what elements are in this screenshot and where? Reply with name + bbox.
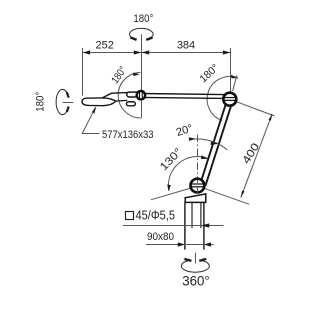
axis line above 360 symbol — [195, 253, 197, 264]
arrow of 20deg arc at centerline — [189, 137, 196, 141]
arc 180deg around elbow joint — [118, 72, 141, 118]
svg-text:90x80: 90x80 — [147, 231, 174, 243]
svg-text:384: 384 — [177, 40, 195, 52]
arrow of 130deg arc at radial line — [167, 185, 171, 192]
post outer left — [184, 202, 186, 249]
arrow at top of elbow arc — [133, 73, 140, 77]
extension line from lower joint for 400 — [204, 188, 249, 204]
arrow mid pointing left — [142, 50, 149, 54]
elbow joint slot — [139, 92, 141, 99]
horizontal arm bottom edge — [142, 97, 224, 98]
knob below head bracket — [127, 102, 136, 106]
tick left — [82, 48, 84, 57]
svg-text:180°: 180° — [35, 92, 47, 112]
lower joint slot — [190, 183, 204, 185]
arrow at right end pointing right — [223, 50, 230, 54]
clamp bracket below lower joint — [185, 194, 206, 202]
elbow joint — [137, 91, 145, 99]
arrow of 20deg arc at arm — [211, 141, 218, 145]
centerline (dash-dot) through lower joint — [197, 135, 199, 192]
head bracket top line — [102, 93, 128, 98]
dimension line 400 — [241, 114, 272, 198]
post outer right — [203, 202, 205, 249]
centerline segment inside lower joint — [197, 180, 199, 184]
arrow 400 top — [269, 114, 273, 121]
head hinge capsule — [127, 92, 142, 97]
dimension line 90x80 — [146, 244, 214, 246]
lower joint — [191, 179, 205, 193]
upper joint slot — [223, 97, 236, 99]
axis line from top rotation symbol down to elbow joint — [141, 34, 143, 91]
arc 180deg around upper joint — [207, 76, 238, 120]
dimension line 252/384 — [83, 52, 232, 54]
tick right — [230, 48, 232, 57]
svg-text:577x136x33: 577x136x33 — [102, 129, 154, 141]
post inner right — [200, 202, 202, 228]
rotation symbol top: arrow tips — [130, 37, 136, 40]
lamp head body — [82, 98, 116, 106]
leader line for square45/phi5,5 — [123, 225, 224, 227]
leader line for 577x136x33 — [82, 107, 99, 133]
head bracket bottom line — [116, 99, 127, 102]
arrow at end of upper arc — [231, 75, 239, 79]
upper joint — [223, 93, 236, 106]
arrow of 130deg arc at arm — [201, 155, 208, 159]
arc 20deg — [194, 139, 227, 150]
rotation symbol bottom: arrow tips — [184, 259, 191, 261]
arc 130deg — [168, 157, 207, 191]
radial reference line for 130deg — [151, 188, 191, 200]
tick middle — [141, 48, 143, 57]
rotation symbol top: ellipse arrow — [130, 28, 154, 39]
post inner left — [191, 202, 193, 228]
radial tick below elbow joint — [141, 101, 143, 118]
arrow 90x80 left pointing right — [178, 242, 185, 246]
rotation symbol left: ellipse arrow — [56, 89, 68, 114]
svg-text:180°: 180° — [133, 13, 153, 25]
rotation symbol bottom: ellipse arrow — [181, 260, 209, 272]
svg-text:252: 252 — [96, 40, 114, 52]
rotation symbol left: arrow tips — [67, 92, 69, 98]
horizontal arm top edge — [142, 94, 225, 95]
extension line from upper joint for 400 — [236, 102, 274, 116]
arrow 400 bottom — [241, 191, 245, 198]
lower arm edge left — [200, 98, 228, 185]
rotation symbol left: horizontal axis stub — [63, 102, 74, 104]
extension line right (to upper joint) — [230, 48, 232, 92]
arrow at left end pointing left — [83, 50, 90, 54]
label square symbol of 45/phi5,5 — [126, 212, 134, 220]
arrow on label line pointing left at inner rod — [201, 223, 209, 227]
radial tick above upper joint — [233, 75, 237, 91]
lower arm edge right — [206, 99, 234, 186]
extension line left (to lamp head tip) — [82, 53, 84, 96]
svg-text:360°: 360° — [182, 273, 210, 288]
arrow mid pointing right — [134, 50, 141, 54]
arrow 90x80 right pointing left — [204, 242, 211, 246]
svg-text:45/Φ5,5: 45/Φ5,5 — [136, 208, 176, 222]
leader arrow — [92, 107, 96, 114]
